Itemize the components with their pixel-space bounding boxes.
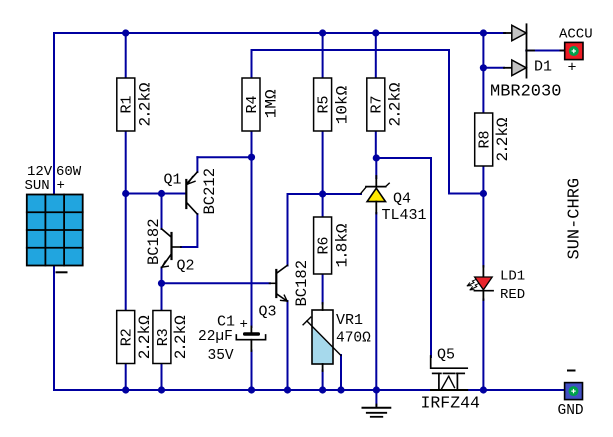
wire VR1 bottom to rail — [322, 371, 324, 391]
capacitor C1 — [236, 327, 265, 352]
resistor R8 — [475, 113, 494, 166]
junction rail ground — [373, 386, 380, 393]
svg-text:2.2kΩ: 2.2kΩ — [494, 117, 512, 161]
label TL431 — [382, 207, 427, 224]
svg-text:Q1: Q1 — [164, 172, 182, 189]
junction rail R2 — [122, 386, 129, 393]
value 470 — [336, 331, 371, 347]
wire R7 top to top rail — [375, 33, 377, 78]
junction rail VR1 — [319, 386, 326, 393]
label C1 — [217, 314, 235, 331]
junction rail R3 — [158, 386, 165, 393]
svg-text:Q5: Q5 — [437, 347, 455, 364]
wire solar panel minus to bottom rail — [53, 265, 55, 390]
wire Q2 collector riser — [161, 194, 163, 230]
junction Q2 emitter R3 node — [158, 280, 165, 287]
terminal GND — [565, 383, 583, 400]
wire TL431 reference from R5 node — [323, 193, 361, 195]
wire C1 bottom to rail — [251, 351, 253, 391]
svg-text:R4: R4 — [244, 95, 261, 113]
junction R1 bottom node — [122, 190, 129, 197]
svg-text:BC212: BC212 — [201, 168, 219, 215]
wire R5 bottom to R6 top through node — [322, 131, 324, 217]
svg-text:Q2: Q2 — [177, 258, 195, 275]
label GND — [558, 403, 584, 419]
junction R8 bottom node — [480, 190, 487, 197]
svg-text:BC182: BC182 — [293, 260, 311, 307]
svg-text:R2: R2 — [119, 328, 136, 346]
resistor R7 — [367, 78, 386, 131]
value 35V — [208, 348, 234, 364]
ground — [363, 405, 391, 417]
svg-text:LD1: LD1 — [500, 269, 525, 285]
wire VR1 wiper to rail — [340, 355, 342, 390]
svg-text:R5: R5 — [316, 95, 333, 113]
label MBR2030 — [490, 83, 561, 102]
junction Q1 base Q2 collector node — [158, 190, 165, 197]
resistor R5 — [314, 78, 333, 131]
wire R3 bottom to rail — [161, 364, 163, 391]
junction R4 bottom node — [248, 154, 255, 161]
svg-text:SUN: SUN — [25, 178, 50, 194]
svg-text:+: + — [568, 60, 577, 77]
wire bottom rail (ground rail) — [54, 389, 565, 391]
label RED — [500, 287, 525, 303]
junction rail LED column — [480, 386, 487, 393]
wire left column from top rail to solar panel — [53, 33, 55, 195]
junction R7 TL431 gate node — [373, 154, 380, 161]
label BC182 of Q3 — [293, 260, 311, 307]
wire top rail down to R8 — [482, 33, 484, 113]
wire Q1 emitter riser — [196, 157, 198, 172]
svg-text:10kΩ: 10kΩ — [334, 85, 352, 124]
junction diode D1 lower branch — [480, 64, 487, 71]
wire R2 bottom to rail — [125, 364, 127, 391]
wire top rail — [54, 32, 505, 34]
value 22uF — [198, 329, 233, 345]
transistor Q3 BC182 — [270, 265, 288, 301]
wire Q1 emitter to R4 node — [197, 156, 251, 158]
svg-text:Q4: Q4 — [393, 191, 411, 208]
svg-text:RED: RED — [500, 287, 525, 303]
value R5 10k — [334, 85, 352, 124]
value R4 1M — [263, 89, 281, 118]
svg-text:R6: R6 — [316, 236, 333, 254]
resistor R4 — [242, 78, 261, 131]
svg-text:D1: D1 — [534, 59, 552, 76]
label Q5 — [437, 347, 455, 364]
wire Q1 base wire — [126, 193, 185, 195]
svg-text:Q3: Q3 — [259, 304, 277, 321]
svg-text:MBR2030: MBR2030 — [490, 83, 561, 102]
svg-text:+: + — [240, 317, 248, 333]
svg-text:C1: C1 — [217, 314, 235, 331]
wire R7 bottom to node — [375, 131, 377, 158]
wire Q2 emitter to R3 top — [161, 268, 163, 311]
label D1 — [534, 59, 552, 76]
svg-text:R3: R3 — [155, 328, 172, 346]
wire Q3 base wire from node — [162, 282, 271, 284]
wire R4 top over to R8 bottom node — [252, 50, 484, 194]
value R2 2.2k — [136, 315, 154, 359]
value R3 2.2k — [172, 315, 190, 359]
wire node to Q5 gate — [376, 158, 431, 357]
junction R5 R6 TL431 node — [319, 190, 326, 197]
wire R5 top to top rail — [322, 33, 324, 78]
svg-text:1.8kΩ: 1.8kΩ — [334, 223, 352, 267]
svg-text:VR1: VR1 — [336, 312, 363, 329]
label ACCU plus — [568, 60, 577, 77]
value R8 2.2k — [494, 117, 512, 161]
label Q3 — [259, 304, 277, 321]
diode D1 MBR2030 dual schottky — [504, 24, 534, 77]
label SUN — [25, 178, 50, 194]
svg-text:35V: 35V — [208, 348, 234, 364]
junction rail VR1 wiper — [337, 386, 344, 393]
svg-text:SUN-CHRG: SUN-CHRG — [566, 178, 585, 260]
svg-text:2.2kΩ: 2.2kΩ — [136, 315, 154, 359]
wire node down to TL431 cathode — [375, 158, 377, 178]
wire LED cathode to rail — [482, 300, 484, 391]
wire Q3 collector to R5 node — [288, 194, 323, 266]
svg-text:22µF: 22µF — [198, 329, 233, 345]
junction top rail R1 — [122, 29, 129, 36]
wire R4 bottom down to C1 — [251, 131, 253, 327]
solar panel 12V 60W SUN — [27, 195, 83, 266]
transistor Q1 BC212 — [186, 172, 197, 214]
shunt regulator Q4 TL431 — [361, 176, 390, 214]
label BC182 of Q2 — [145, 218, 163, 265]
transistor Q2 BC182 — [162, 229, 182, 268]
label Q4 — [393, 191, 411, 208]
wire R8 bottom to LED anode — [482, 166, 484, 267]
junction top rail R8 column — [480, 29, 487, 36]
junction rail Q3 emitter — [284, 386, 291, 393]
svg-text:BC182: BC182 — [145, 218, 163, 265]
label C1 plus — [240, 317, 248, 333]
wire ground stub — [375, 390, 377, 406]
svg-text:1MΩ: 1MΩ — [263, 89, 281, 118]
terminal ACCU — [561, 42, 584, 59]
wire R1 top lead to top rail — [125, 33, 127, 78]
svg-text:TL431: TL431 — [382, 207, 427, 224]
resistor R1 — [117, 78, 136, 131]
label 12V — [27, 164, 53, 180]
svg-text:IRFZ44: IRFZ44 — [421, 394, 481, 413]
label IRFZ44 — [421, 394, 481, 413]
label SUN-CHRG — [566, 178, 585, 260]
junction top rail R7 — [372, 29, 379, 36]
wire R6 bottom to VR1 top — [322, 274, 324, 304]
svg-text:GND: GND — [558, 403, 584, 419]
value R1 2.2k — [137, 82, 155, 126]
junction rail C1 — [248, 386, 255, 393]
label VR1 — [336, 312, 363, 329]
resistor R3 — [153, 311, 172, 364]
wire TL431 anode down to rail — [375, 213, 377, 390]
wire R1 bottom to R2 top through node — [125, 131, 127, 311]
wire Q3 emitter to rail — [287, 301, 289, 390]
potentiometer VR1 — [303, 303, 341, 371]
label panel minus — [57, 271, 67, 273]
label BC212 — [201, 168, 219, 215]
value R6 1.8k — [334, 223, 352, 267]
svg-text:R8: R8 — [477, 130, 494, 148]
svg-text:+: + — [57, 178, 65, 194]
svg-text:ACCU: ACCU — [559, 27, 593, 43]
resistor R2 — [117, 311, 136, 364]
svg-text:2.2kΩ: 2.2kΩ — [137, 82, 155, 126]
svg-text:R7: R7 — [369, 95, 386, 113]
mosfet Q5 IRFZ44 — [431, 356, 468, 390]
svg-text:2.2kΩ: 2.2kΩ — [387, 82, 405, 126]
label GND minus — [568, 370, 575, 372]
label 60W — [56, 164, 82, 180]
led LD1 — [467, 266, 493, 300]
label ACCU — [559, 27, 593, 43]
wire D1 cathode to ACCU terminal — [526, 50, 564, 52]
value R7 2.2k — [387, 82, 405, 126]
svg-text:470Ω: 470Ω — [336, 331, 371, 347]
junction top rail R5 — [319, 29, 326, 36]
wire node to diode D1 lower anode — [483, 67, 504, 69]
label Q1 — [164, 172, 182, 189]
wire Q1 collector to Q2 base — [181, 214, 197, 247]
label LD1 — [500, 269, 525, 285]
svg-text:2.2kΩ: 2.2kΩ — [172, 315, 190, 359]
resistor R6 — [314, 217, 333, 274]
label Q2 — [177, 258, 195, 275]
svg-text:R1: R1 — [119, 95, 136, 113]
label panel plus — [57, 178, 65, 194]
